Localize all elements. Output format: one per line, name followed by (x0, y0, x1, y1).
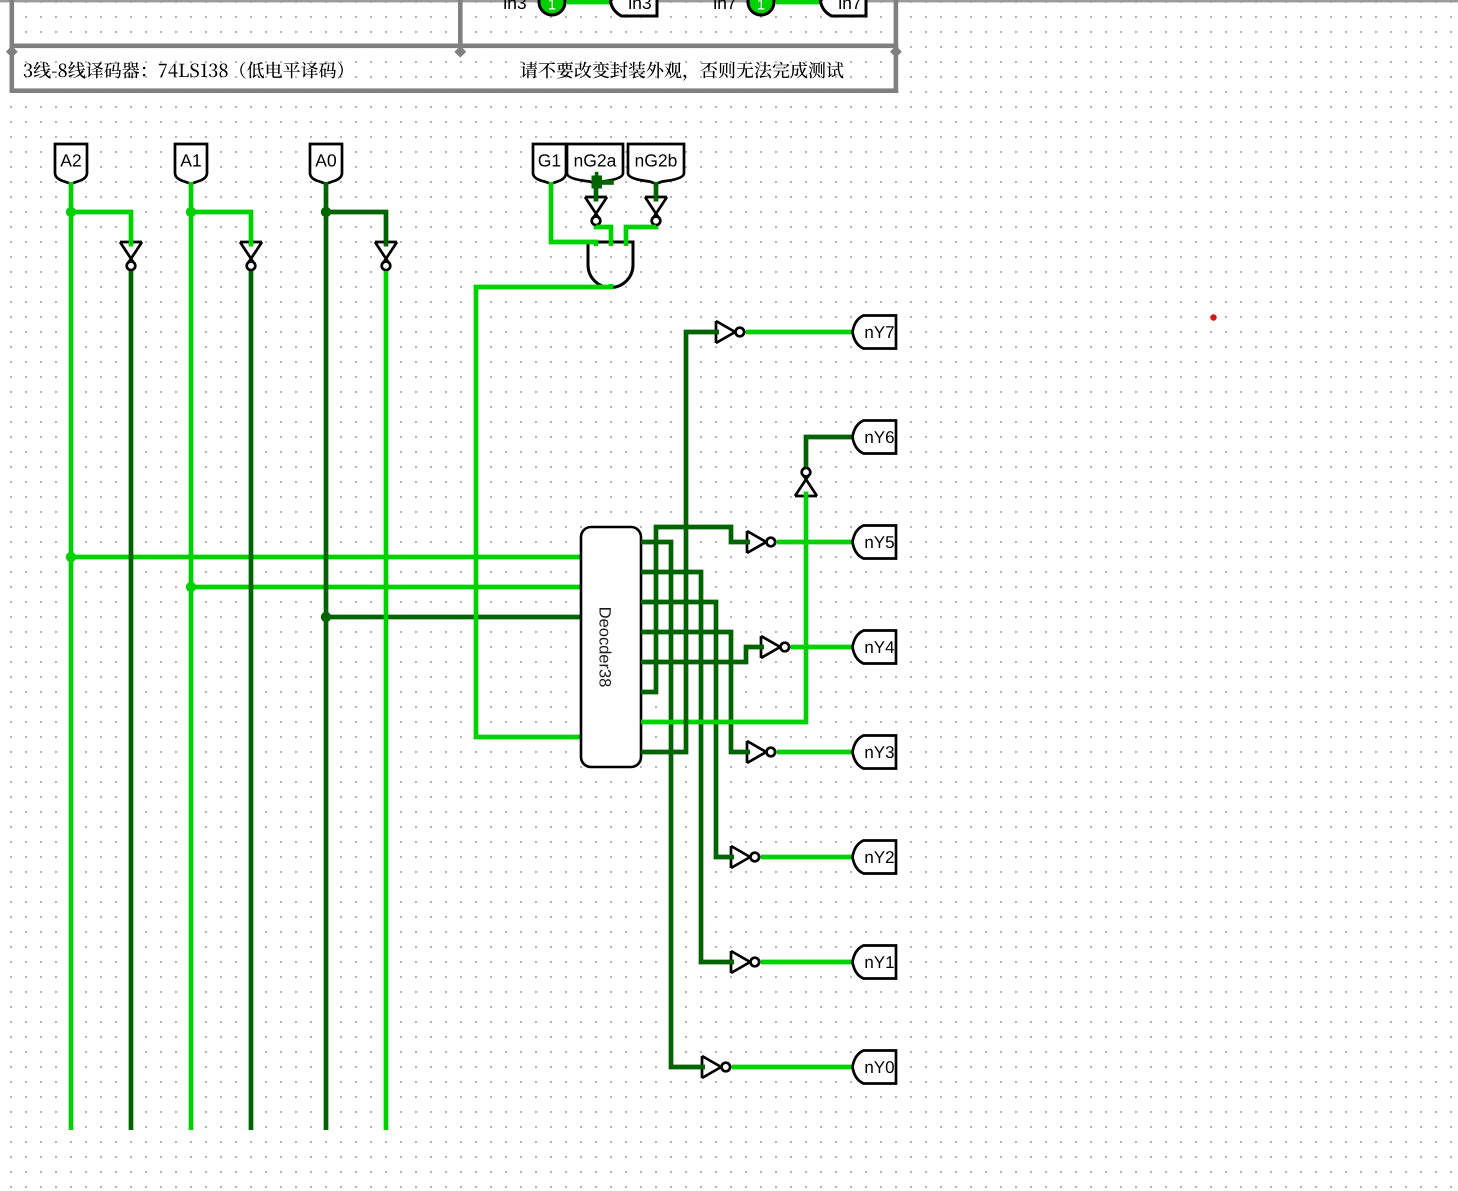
wire gate output to decoder enable (476, 284, 611, 737)
frame junction right (890, 46, 902, 58)
wire A0 row to decoder (326, 615, 581, 620)
wire A2 branch to inverter (71, 212, 131, 247)
wire in3 to tunnel (567, 0, 611, 4)
wire nY6 to tunnel (806, 437, 852, 467)
tunnel nY0 (853, 1051, 897, 1084)
tunnel A2 (55, 144, 87, 184)
junction A0 row (321, 612, 331, 622)
wire nY2 to tunnel (761, 855, 852, 860)
wire Y6 active from decoder pin (641, 492, 806, 723)
probe in3 showing 1 (539, 0, 565, 15)
tunnel nY3 (853, 736, 897, 769)
wire nG2b inverted to gate (626, 226, 656, 246)
tunnel nY4 (853, 631, 897, 664)
tunnel nY2 (853, 841, 897, 874)
inverter nY4 (761, 636, 789, 658)
inverter A2 (120, 242, 142, 270)
inverter A0 (375, 242, 397, 270)
tunnel G1 (533, 144, 566, 184)
inverter nY6 (795, 468, 817, 496)
wire A0 branch to inverter (326, 212, 386, 247)
frame junction left (6, 46, 18, 58)
and-gate U1 (3-input, facing down) (588, 242, 633, 288)
wire nY3 to tunnel (777, 750, 852, 755)
tunnel nY5 (853, 526, 897, 559)
tunnel nY7 (853, 316, 897, 349)
tunnel in7 (821, 0, 867, 16)
junction A0 branch (321, 207, 331, 217)
label in3 (504, 0, 526, 9)
junction A2 row (66, 552, 76, 562)
junction A1 row (186, 582, 196, 592)
probe in7 showing 1 (748, 0, 774, 15)
wire nY7 to tunnel (746, 330, 852, 335)
wire nG2a input (594, 182, 599, 202)
wire Y4 from decoder pin (641, 647, 764, 662)
decoder U2 Deocder38 (581, 527, 641, 767)
header label left: 3-8 decoder 74LS138 (24, 62, 343, 79)
wire nY0 to tunnel (732, 1065, 852, 1070)
wire nG2a inverted to gate (596, 226, 611, 246)
frame top edge (0, 0, 1458, 2)
wire A1 vertical main (189, 182, 194, 1130)
inverter nY5 (747, 531, 775, 553)
inverter nY7 (716, 321, 744, 343)
cursor artifact at nG2a (592, 172, 614, 189)
inverter nG2a (585, 197, 607, 225)
junction A1 branch (186, 207, 196, 217)
tunnel nY6 (853, 421, 897, 454)
wire nY5 to tunnel (777, 540, 852, 545)
tunnel nG2a (567, 144, 623, 184)
wire A2 row to decoder (71, 555, 581, 560)
inverter nY0 (702, 1056, 730, 1078)
junction A2 branch (66, 207, 76, 217)
wire A1 branch to inverter (191, 212, 251, 247)
wire Y2 from decoder pin (641, 602, 734, 857)
wire nY1 to tunnel (761, 960, 852, 965)
tunnel nG2b (628, 144, 684, 184)
tunnel in3 (611, 0, 658, 16)
frame horizontal bar (10, 44, 899, 49)
wire Y0 from decoder pin (641, 542, 705, 1067)
wire Y1 from decoder pin (641, 572, 734, 962)
frame middle divider (458, 0, 463, 46)
wire in7 to tunnel (776, 0, 821, 4)
inverter nY3 (747, 741, 775, 763)
wire nY4 to tunnel (791, 645, 852, 650)
wire A0 vertical main (324, 182, 329, 1130)
wire A2 vertical main (69, 182, 74, 1130)
frame bottom border (10, 88, 899, 93)
inverter nY1 (731, 951, 759, 973)
wire A0 inverted (384, 271, 389, 1130)
frame right border (894, 0, 899, 93)
tunnel A1 (175, 144, 207, 184)
label in7 (714, 0, 735, 9)
marker red dot (1210, 314, 1216, 320)
tunnel A0 (310, 144, 342, 184)
wire Y3 from decoder pin (641, 632, 750, 752)
frame left border (10, 0, 15, 93)
inverter A1 (240, 242, 262, 270)
header label right: do not change package warning (521, 62, 844, 81)
wire A1 inverted (249, 271, 254, 1130)
wire A2 inverted (129, 271, 134, 1130)
wire Y7 from decoder pin (641, 332, 719, 752)
inverter nY2 (731, 846, 759, 868)
frame junction middle (454, 46, 466, 58)
tunnel nY1 (853, 946, 897, 979)
wire Y5 from decoder pin (641, 527, 750, 692)
wire nG2b input (654, 182, 659, 202)
wire G1 to gate (551, 182, 596, 246)
inverter nG2b (645, 197, 667, 225)
wire A1 row to decoder (191, 585, 581, 590)
